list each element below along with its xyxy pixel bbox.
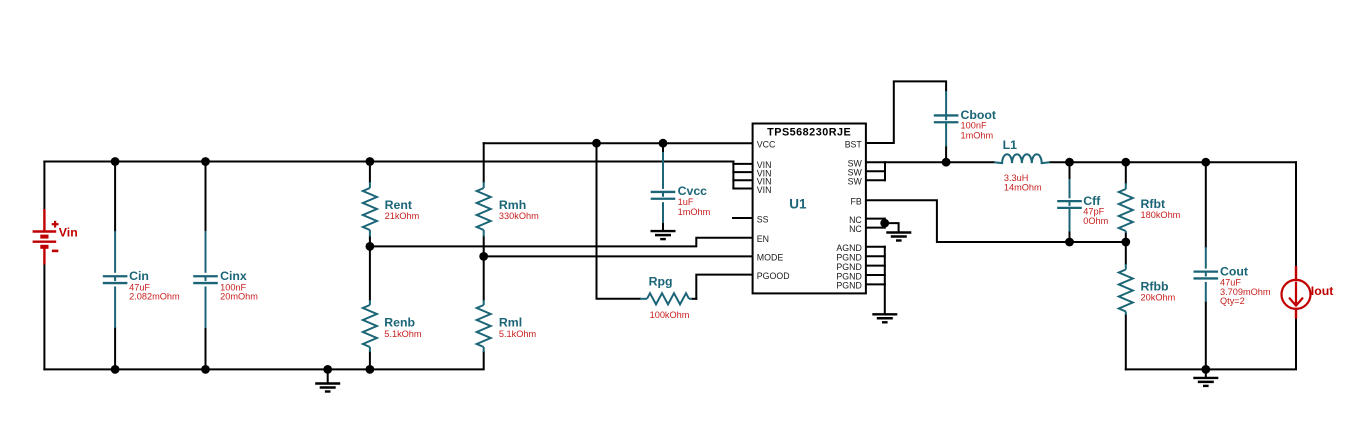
inductor L1	[994, 154, 1050, 163]
capacitor Cboot top lead	[945, 91, 947, 115]
svg-text:Renb: Renb	[384, 315, 415, 329]
wire Rpg to VCC riser	[597, 143, 641, 299]
wire VIN pin 3 stub	[733, 179, 752, 181]
wire PGOOD net	[696, 275, 752, 299]
svg-text:Iout: Iout	[1311, 284, 1334, 298]
wire Renb bottom lead	[369, 352, 371, 369]
wire VIN pin bundle bar	[732, 162, 734, 189]
wire Rfbb top lead black	[1125, 242, 1127, 264]
svg-text:NC: NC	[849, 224, 862, 234]
svg-text:L1: L1	[1003, 138, 1018, 152]
svg-text:PGOOD: PGOOD	[757, 271, 790, 281]
wire Cin bottom lead black	[114, 328, 116, 369]
svg-text:Cvcc: Cvcc	[678, 184, 708, 198]
junction Rent-Renb / EN net	[366, 242, 375, 251]
capacitor Cin bottom lead	[114, 287, 116, 329]
capacitor Cboot	[934, 115, 959, 122]
wire PGND pin 2 stub	[866, 265, 885, 267]
resistor Rfbt	[1119, 189, 1133, 231]
junction Rfbt / VOUT rail	[1121, 158, 1130, 167]
svg-text:20mOhm: 20mOhm	[220, 292, 258, 302]
minus sign of Vin	[52, 250, 58, 253]
capacitor Cinx bottom lead	[205, 287, 207, 329]
wire Cin top lead black	[114, 162, 116, 232]
svg-text:330kOhm: 330kOhm	[499, 211, 539, 221]
plus sign of Vin	[52, 221, 59, 228]
wire GND bottom rail right	[1126, 319, 1296, 370]
resistor Rmh bottom teal lead	[483, 230, 485, 237]
wire input ground stem	[327, 369, 329, 383]
svg-text:Vin: Vin	[59, 226, 78, 240]
wire VIN pin 4 stub	[733, 188, 752, 190]
capacitor Cinx	[193, 276, 218, 283]
svg-text:VCC: VCC	[757, 139, 776, 149]
resistor Rml	[477, 305, 491, 347]
junction Cinx / VIN rail	[201, 157, 210, 166]
svg-text:Qty=2: Qty=2	[1220, 296, 1245, 306]
wire VCC net	[484, 142, 753, 144]
junction Cboot / SW net	[942, 158, 951, 167]
junction Cvcc / VCC net	[659, 139, 668, 148]
svg-text:U1: U1	[789, 197, 807, 212]
wire Rml top lead	[483, 256, 485, 300]
wire Rent bottom lead	[369, 237, 371, 247]
wire VIN pin 1 stub	[733, 163, 752, 165]
svg-text:Cout: Cout	[1220, 265, 1248, 279]
wire Rpg right lead black	[692, 298, 696, 300]
svg-text:Rpg: Rpg	[649, 275, 673, 289]
wire SW pin 3 stub	[866, 179, 885, 181]
resistor Rmh top teal lead	[483, 182, 485, 188]
wire NC pin 2 stub	[866, 227, 885, 229]
svg-text:1uF: 1uF	[678, 197, 694, 207]
wire Rfbt bottom lead black	[1125, 233, 1127, 242]
svg-text:47pF: 47pF	[1083, 207, 1104, 217]
ground symbol (output rail)	[1193, 378, 1218, 386]
wire Cout ground stem	[1205, 369, 1207, 378]
wire GND bottom rail left	[44, 352, 483, 369]
wire Cout bottom lead black	[1205, 302, 1207, 369]
resistor Rml bottom teal lead	[483, 347, 485, 352]
svg-text:20kOhm: 20kOhm	[1141, 292, 1176, 302]
resistor Rpg right teal lead	[689, 298, 692, 300]
resistor Rent	[363, 188, 377, 230]
wire Cinx bottom lead black	[205, 328, 207, 369]
svg-text:Rmh: Rmh	[499, 198, 526, 212]
capacitor Cff top lead	[1069, 179, 1071, 198]
wire PGND pin 3 stub	[866, 274, 885, 276]
svg-text:Rent: Rent	[385, 198, 412, 212]
junction Cout / VOUT rail	[1201, 158, 1210, 167]
wire Rmh top riser	[483, 143, 485, 182]
wire MODE net	[484, 255, 753, 257]
wire VIN pin 2 stub	[733, 171, 752, 173]
svg-text:BST: BST	[845, 139, 863, 149]
wire PGND pin 1 stub	[866, 255, 885, 257]
wire Vin top lead	[43, 162, 45, 210]
svg-text:SS: SS	[757, 214, 769, 224]
wire SW pin bundle bar	[884, 162, 886, 180]
resistor Rfbb	[1119, 270, 1133, 312]
resistor Renb top teal lead	[369, 300, 371, 305]
wire Renb top lead	[369, 246, 371, 300]
junction Rent / VIN rail	[366, 157, 375, 166]
junction Cff / VOUT rail	[1065, 158, 1074, 167]
ground symbol (AGND/PGND)	[872, 314, 897, 322]
ground symbol (Cvcc)	[651, 231, 676, 239]
wire VIN rail (top input net)	[44, 161, 733, 163]
wire FB net	[866, 200, 1126, 242]
capacitor Cvcc top lead	[662, 152, 664, 189]
ground symbol (NC pins)	[886, 233, 911, 241]
wire Rfbt top lead black	[1125, 162, 1127, 183]
wire Cvcc top riser black	[662, 143, 664, 152]
wire NC pin 1 stub	[866, 218, 885, 220]
wire NC to ground	[885, 223, 899, 232]
svg-text:100kOhm: 100kOhm	[650, 310, 690, 320]
svg-text:FB: FB	[851, 197, 862, 207]
svg-text:SW: SW	[848, 177, 863, 187]
junction Cout / output ground rail	[1201, 365, 1210, 374]
resistor Rent bottom teal lead	[369, 230, 371, 237]
resistor Rfbb bottom teal lead	[1125, 312, 1127, 316]
junction ground symbol / ground rail	[323, 365, 332, 374]
wire Iout top lead	[1295, 162, 1297, 266]
wire Rmh bottom lead	[483, 237, 485, 257]
svg-text:EN: EN	[757, 234, 769, 244]
resistor Rmh	[477, 188, 491, 230]
svg-text:5.1kOhm: 5.1kOhm	[384, 329, 422, 339]
svg-text:VIN: VIN	[757, 185, 772, 195]
wire PGND pin 4 stub	[866, 283, 885, 285]
capacitor Cout top lead	[1205, 247, 1207, 269]
svg-text:21kOhm: 21kOhm	[385, 211, 420, 221]
junction Cin / VIN rail	[111, 157, 120, 166]
wire Rfbb bottom lead black	[1125, 315, 1127, 369]
voltage source Vin (battery)	[33, 209, 57, 265]
resistor Rpg left teal lead	[640, 298, 647, 300]
resistor Renb	[363, 305, 377, 347]
wire VOUT rail	[1050, 161, 1296, 163]
capacitor Cvcc bottom lead	[662, 202, 664, 223]
wire SW net to L1	[866, 161, 994, 163]
svg-text:Cinx: Cinx	[220, 269, 247, 283]
svg-text:TPS568230RJE: TPS568230RJE	[767, 127, 851, 139]
wire Cff bottom lead black	[1069, 232, 1071, 243]
op-amp U1 IC body TPS568230RJE	[753, 124, 866, 294]
capacitor Cin top lead	[114, 231, 116, 273]
wire AGND stub	[866, 246, 885, 248]
resistor Renb bottom teal lead	[369, 347, 371, 352]
junction Rpg riser / VCC net	[592, 139, 601, 148]
svg-text:Rml: Rml	[499, 315, 522, 329]
wire Cvcc ground stem	[662, 223, 664, 231]
svg-text:0Ohm: 0Ohm	[1083, 216, 1108, 226]
svg-text:MODE: MODE	[757, 253, 784, 263]
capacitor Cout bottom lead	[1205, 282, 1207, 302]
svg-text:PGND: PGND	[836, 281, 861, 291]
svg-text:14mOhm: 14mOhm	[1004, 182, 1042, 192]
wire AGND/PGND bundle bar to ground	[884, 247, 886, 313]
svg-text:100nF: 100nF	[961, 121, 987, 131]
resistor Rfbb top teal lead	[1125, 264, 1127, 270]
capacitor Cinx top lead	[205, 231, 207, 273]
resistor Rml top teal lead	[483, 300, 485, 305]
wire SS stub (floating)	[733, 217, 753, 219]
wire Cff top lead black	[1069, 162, 1071, 179]
wire Cout top lead black	[1205, 162, 1207, 247]
capacitor Cvcc	[651, 192, 676, 199]
svg-text:2.082mOhm: 2.082mOhm	[129, 292, 180, 302]
wire NC bundle bar	[884, 219, 886, 228]
junction Cin / ground rail	[111, 365, 120, 374]
resistor Rfbt top teal lead	[1125, 183, 1127, 189]
current source Iout	[1282, 266, 1311, 319]
resistor Rent top teal lead	[369, 182, 371, 188]
wire Rent top lead	[369, 162, 371, 183]
resistor Rpg	[647, 293, 689, 304]
wire Cinx top lead black	[205, 162, 207, 232]
svg-text:180kOhm: 180kOhm	[1141, 210, 1181, 220]
junction Cff / FB net	[1065, 238, 1074, 247]
junction Renb / ground rail	[366, 365, 375, 374]
resistor Rfbt bottom teal lead	[1125, 231, 1127, 233]
ground symbol (input rail)	[315, 384, 340, 392]
svg-text:5.1kOhm: 5.1kOhm	[499, 329, 537, 339]
svg-text:Cin: Cin	[129, 269, 149, 283]
capacitor Cff	[1057, 201, 1082, 208]
capacitor Cff bottom lead	[1069, 208, 1071, 232]
capacitor Cin	[103, 276, 128, 283]
wire SW pin 2 stub	[866, 170, 885, 172]
wire Cboot bottom lead black	[945, 147, 947, 163]
junction NC pins	[880, 219, 889, 228]
capacitor Cout	[1194, 272, 1219, 279]
svg-text:1mOhm: 1mOhm	[961, 131, 994, 141]
wire EN net	[370, 238, 753, 247]
junction Cinx / ground rail	[201, 365, 210, 374]
svg-text:1mOhm: 1mOhm	[678, 207, 711, 217]
capacitor Cboot bottom lead	[945, 122, 947, 146]
wire Vin bottom lead	[43, 265, 45, 370]
junction Rfbt-Rfbb / FB net	[1121, 238, 1130, 247]
wire BST to Cboot loop	[866, 81, 946, 143]
junction Rmh-Rml / MODE net	[479, 252, 488, 261]
